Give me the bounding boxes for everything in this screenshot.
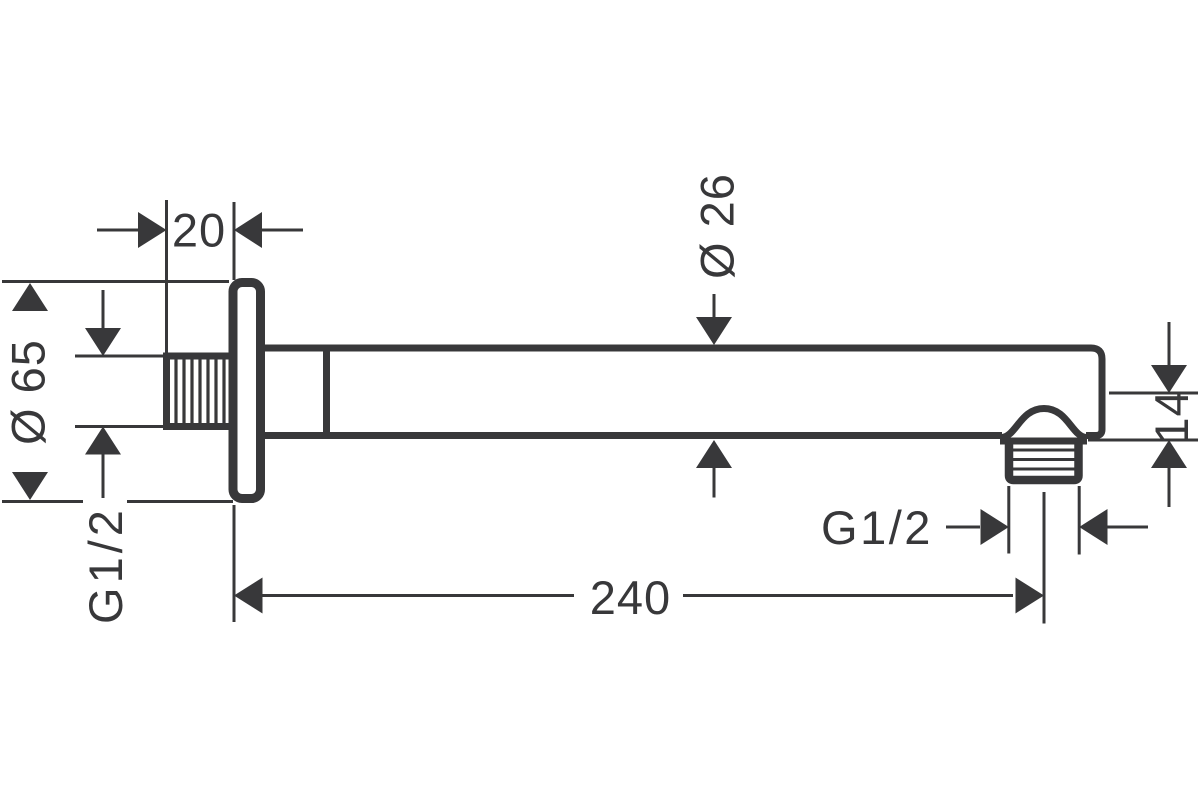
nipple thread lines — [1013, 450, 1075, 469]
dimension 14: arrowheads — [1151, 365, 1187, 393]
svg-text:Ø 26: Ø 26 — [691, 173, 744, 279]
dimension 240: arrowheads — [234, 578, 263, 614]
svg-text:Ø 65: Ø 65 — [2, 339, 55, 445]
svg-text:G1/2: G1/2 — [79, 506, 132, 624]
thread hatch lines — [176, 359, 224, 424]
outlet nipple body — [1009, 442, 1079, 480]
dimension 20: arrowheads — [138, 212, 167, 248]
dimension G1/2 left: extension lines — [75, 290, 163, 498]
dimension D65: extension lines — [2, 282, 233, 502]
wall thread G1/2 body — [167, 356, 234, 427]
joint line on arm — [323, 351, 330, 433]
svg-text:G1/2: G1/2 — [821, 501, 933, 554]
dimension D65: arrowheads — [12, 283, 48, 311]
dimension G1/2 left: arrowheads — [85, 328, 121, 356]
dimension D26: leader lines — [713, 294, 716, 498]
nipple top bar — [1000, 438, 1087, 445]
arm tube outline — [263, 348, 1102, 436]
svg-text:20: 20 — [172, 204, 226, 257]
dimension D26: arrowheads — [696, 317, 732, 345]
dimension 20: extension lines — [97, 200, 303, 356]
flange escutcheon — [233, 283, 261, 499]
dimension G1/2 bottom: arrowheads — [981, 509, 1009, 545]
dimension 240: extension lines — [234, 492, 1044, 624]
svg-text:14: 14 — [1145, 389, 1198, 443]
dimension G1/2 bottom: extension lines — [946, 486, 1148, 555]
weld dome on arm underside — [1001, 409, 1087, 438]
dimension 20: dimension line tails — [97, 229, 303, 232]
dimension 14: reference lines — [1088, 322, 1198, 507]
svg-text:240: 240 — [590, 571, 671, 624]
